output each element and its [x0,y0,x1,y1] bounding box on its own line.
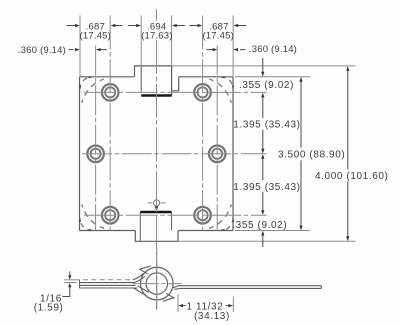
dim .355 top [262,58,264,113]
corner arc bottom-right [221,218,233,231]
dim .360 right [206,49,245,51]
dim .355 bottom text [232,220,287,231]
profile curl bottom-right beak [163,293,174,301]
corner long arc bottom-right [209,205,231,229]
svg-text:(1.59): (1.59) [34,303,64,314]
hole row2 col2 [209,146,226,163]
plate left edge [79,77,81,231]
plate left leaf top edge [80,76,135,78]
corner arrows bottom-right [220,218,234,232]
knuckle slot thick line top [141,94,171,96]
extension line x141 upper [140,16,142,66]
plate bottom right edge [178,230,233,232]
profile centerline horizontal [133,283,182,285]
small center hole [154,200,160,206]
profile curl top-left beak [140,266,151,274]
hole column line c1a [109,16,111,231]
profile thickness ext tick top [64,279,80,281]
corner arrows bottom-left [79,218,93,232]
hole row1 col2 [194,84,211,101]
barrel top tab [135,66,172,96]
dim 1.395 bottom [262,159,264,211]
hole column line c2a [202,16,204,231]
corner arrows top-right [220,76,234,90]
svg-text:.360 (9.14): .360 (9.14) [249,44,297,55]
profile knuckle inner circle [146,273,167,294]
dim 4.000 text [315,171,388,182]
svg-text:3.500 (88.90): 3.500 (88.90) [278,150,345,161]
extension leaf bottom right [235,230,310,232]
knuckle edge bottom left [139,212,141,241]
corner long arc top-right [209,79,231,103]
corner arc top-right [221,77,233,90]
knuckle slot thick line bottom [140,211,171,213]
dim .360 left [18,45,66,56]
dim .355 bottom [262,235,264,247]
dim 1.395 bottom text [233,182,300,193]
plate right leaf top edge [179,76,233,78]
dim 1.395 top [262,113,264,150]
row2 centerline [82,153,267,155]
extension line x233 [232,16,234,77]
corner arc top-left [80,77,92,90]
profile wrap bottom-left diagonals [134,286,149,296]
corner long arc bottom-left [82,205,104,229]
hole column line c1b [95,46,97,231]
plate bottom left edge [80,230,136,232]
hole row2 col1 [87,146,104,163]
dim .694 text [141,21,173,41]
center arrow at bottom slot [155,206,158,211]
dim 1.395 top text [233,120,300,131]
hole row3 col1 [102,207,119,224]
dim 3.500 text [278,150,345,161]
svg-text:.360 (9.14): .360 (9.14) [18,45,66,56]
corner arc bottom-left [80,218,92,231]
dim 1 11/32 [178,294,233,312]
small hole crosshair [148,202,166,204]
dim 3.500 line [300,81,302,226]
profile left bar hidden dashed edge [83,279,133,281]
profile thickness ext tick mid [64,282,77,284]
hole row1 col1 [102,84,119,101]
centerline vertical [156,9,158,310]
dim .694 [128,25,185,27]
svg-text:(17.45): (17.45) [80,31,112,42]
svg-text:(17.63): (17.63) [141,31,173,42]
svg-text:.355 (9.02): .355 (9.02) [239,80,294,91]
svg-text:1.395 (35.43): 1.395 (35.43) [233,182,300,193]
dim 1/16 text [34,293,64,313]
extension leaf top right [235,76,310,78]
corner arrows top-left [79,76,93,90]
svg-text:4.000 (101.60): 4.000 (101.60) [315,171,388,182]
profile left bar edges [80,280,138,288]
extension line x171.6 upper [171,16,173,66]
dim .355 top text [239,80,294,91]
knuckle edge top [140,66,142,93]
dim 4.000 line [347,71,349,237]
row3 centerline [84,214,267,216]
profile centerline vertical [156,248,158,310]
svg-text:(17.45): (17.45) [202,31,234,42]
dim 1 11/32 text [187,301,230,322]
row1 centerline [84,91,267,93]
profile knuckle outer circle [141,267,174,300]
corner long arc top-left [82,79,104,103]
svg-text:1.395 (35.43): 1.395 (35.43) [233,120,300,131]
dim .687 left [67,25,123,27]
extension barrel top [172,65,356,67]
barrel top notch [172,77,179,91]
extension barrel bottom [179,240,356,242]
barrel bottom tab [135,231,178,242]
profile curl transition top-left [133,273,145,282]
dim 1/16 [63,272,70,297]
dim .687 left text [80,21,112,41]
plate right edge [232,77,234,231]
dim .687 right text [202,21,234,41]
svg-text:(34.13): (34.13) [194,311,230,322]
svg-text:.355 (9.02): .355 (9.02) [232,220,287,231]
extension line x80 [79,16,81,77]
profile right bar [173,286,321,290]
hole column line c2b [216,46,218,231]
hole row3 col2 [194,207,211,224]
dim .687 right [189,25,246,27]
knuckle edge bottom right [171,212,173,231]
